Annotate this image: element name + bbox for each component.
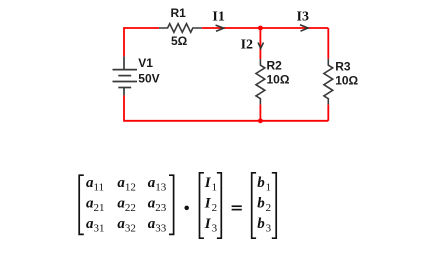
arrow I2 [258,43,264,49]
svg-text:b2: b2 [257,195,271,214]
svg-text:R2: R2 [267,58,283,72]
dot operator [184,206,189,211]
wire bottom right red segment [260,120,328,122]
wire middle branch lower red [259,104,261,120]
svg-text:a12: a12 [117,175,135,194]
svg-text:a33: a33 [148,216,167,235]
vector I left bracket [200,173,204,238]
svg-text:I1: I1 [204,175,217,194]
svg-text:b3: b3 [257,216,271,235]
wire left-bottom red segment [124,95,260,120]
wire top red segment R1 to right corner [202,27,328,29]
svg-text:a13: a13 [148,175,167,194]
svg-text:I1: I1 [212,9,224,24]
matrix A right bracket [169,175,174,234]
svg-text:I3: I3 [204,216,218,235]
arrow I3 [300,25,308,31]
resistor R3 [324,59,333,105]
svg-text:a21: a21 [86,195,105,214]
vector b left bracket [252,173,256,238]
wire middle branch upper red [259,28,261,59]
wire top-left red segment [124,28,159,56]
svg-text:R3: R3 [335,60,351,74]
svg-text:V1: V1 [138,56,153,70]
svg-text:I3: I3 [297,10,309,25]
svg-text:10Ω: 10Ω [335,73,358,87]
node junction bottom [258,118,263,123]
vector I right bracket [217,173,221,238]
vector b right bracket [272,173,276,238]
svg-text:a22: a22 [117,195,135,214]
svg-text:5Ω: 5Ω [171,34,188,48]
wire right branch lower red [327,104,329,120]
arrow I1 [216,25,224,31]
resistor R1 [159,24,202,33]
svg-text:a23: a23 [148,195,167,214]
battery V1 [113,56,138,95]
wire right branch upper red [327,28,329,59]
matrix A left bracket [79,175,84,234]
svg-text:I2: I2 [204,195,217,214]
svg-text:a11: a11 [86,175,104,194]
svg-text:b1: b1 [257,175,271,194]
svg-text:a32: a32 [117,216,135,235]
svg-text:10Ω: 10Ω [267,72,290,86]
resistor R2 [256,59,265,104]
svg-text:a31: a31 [86,216,105,235]
svg-text:I2: I2 [241,37,253,52]
svg-text:R1: R1 [171,6,187,20]
node junction top [258,26,263,31]
svg-text:50V: 50V [138,72,159,86]
equals sign [232,205,242,210]
